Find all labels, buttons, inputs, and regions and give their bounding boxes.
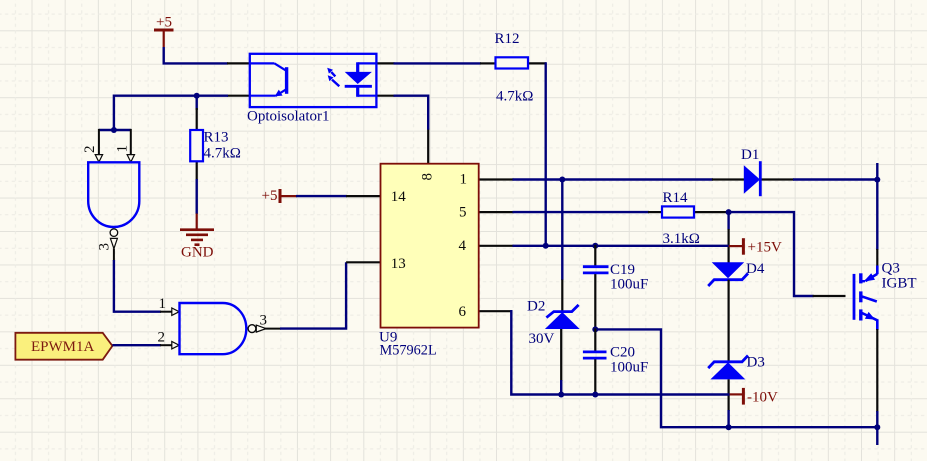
gate2 output arrow [256, 325, 266, 332]
wire branch to gate1 inputs [99, 129, 131, 131]
power -10V [729, 388, 778, 406]
svg-text:2: 2 [82, 146, 98, 154]
svg-text:4: 4 [459, 238, 467, 254]
U9 pin 5 stub [479, 211, 514, 213]
wire Q3 collector node down [876, 180, 878, 251]
svg-text:+5: +5 [262, 188, 278, 204]
svg-text:R12: R12 [495, 31, 520, 47]
svg-text:+5: +5 [156, 15, 172, 31]
wire D2 to -10V rail [560, 329, 562, 395]
gate1 input edge triangles [95, 155, 102, 162]
svg-text:D2: D2 [527, 299, 545, 315]
svg-text:5: 5 [459, 205, 467, 221]
wire +5 to U9 pin 14 [296, 195, 347, 197]
junction R14 / D4 branch [726, 209, 732, 215]
Q3 emitter lead and arrow [862, 313, 877, 320]
U9 pin 8 stub [427, 129, 429, 164]
wire D4 to D3 [727, 280, 729, 362]
Q3 collector lead and arrow [876, 266, 879, 275]
junction gate1 input branch [111, 127, 117, 133]
wire U9 pin 5 to R14 [513, 211, 650, 213]
optoisolator Optoisolator1 [227, 54, 395, 125]
svg-text:13: 13 [391, 256, 406, 272]
wire opto top-right to R12 [394, 62, 482, 64]
svg-text:D4: D4 [746, 261, 765, 277]
junction D1 / Q3 collector [874, 177, 880, 183]
wire EPWM1A to gate2 input 2 [112, 344, 161, 346]
Q3 emitter pin (black) [876, 329, 878, 412]
wire mid rail (C19 bottom to bottom rail) [594, 329, 878, 427]
svg-text:D3: D3 [747, 355, 765, 371]
svg-text:1: 1 [460, 171, 468, 187]
svg-text:D1: D1 [741, 147, 759, 163]
svg-text:6: 6 [459, 304, 467, 320]
wire stub below Q3 emitter junction [876, 427, 878, 445]
svg-text:30V: 30V [529, 331, 555, 347]
gate2 input pin lines [160, 311, 172, 313]
power +5 (at U9 pin 14) [262, 188, 298, 204]
wire gate1 output to gate2 input 1 [114, 260, 161, 312]
junction Q3 emitter / bottom rail [874, 424, 880, 430]
svg-text:Q3: Q3 [882, 261, 900, 277]
zener diode D3 [708, 355, 765, 380]
U9 pin 13 stub [346, 261, 380, 263]
resistor R14 [648, 190, 729, 247]
wire R13 to GND [195, 179, 197, 214]
wire R14 to Q3 gate [728, 212, 846, 296]
opto light arrows [327, 68, 339, 87]
Q3 emitter middle tap [862, 296, 877, 301]
ground GND [180, 214, 214, 261]
svg-text:1: 1 [115, 145, 131, 153]
U9 pin 4 stub [479, 245, 514, 247]
svg-text:3: 3 [97, 243, 113, 251]
svg-text:2: 2 [158, 330, 166, 346]
junction R12 / pin4 net [543, 243, 549, 249]
wire pin1 branch down to D2 [561, 180, 563, 312]
IC U9 M57962L [346, 129, 513, 359]
junction C19 / mid rail [592, 326, 598, 332]
svg-text:8: 8 [420, 173, 436, 181]
junction D3 / bottom rail [726, 424, 732, 430]
wire D3 to bottom rail [727, 379, 729, 427]
junction at R13 top / opto net [194, 93, 200, 99]
zener diode D4 [708, 261, 765, 286]
junction pin1 net / D2 branch [559, 177, 565, 183]
capacitor C20 [583, 328, 648, 394]
gate2 output bubble [248, 325, 256, 333]
U9 body [381, 164, 479, 328]
zener diode D2 [527, 299, 580, 348]
wire D1 to Q3 collector node [793, 178, 877, 180]
svg-text:-10V: -10V [747, 390, 778, 406]
svg-text:M57962L: M57962L [380, 343, 437, 359]
svg-text:100uF: 100uF [610, 277, 648, 293]
gate2 output pin line [264, 328, 281, 330]
wire U9 pin 4 net [513, 245, 729, 247]
wire U9 pin 6 to -10V rail [511, 311, 729, 394]
gate1 input pin lines [98, 129, 100, 155]
gate1 output pin line [113, 249, 115, 261]
Q3 collector pin (black) [876, 249, 878, 266]
svg-text:14: 14 [391, 189, 407, 205]
resistor R12 [480, 31, 546, 105]
junction C20 / -10V rail [592, 392, 598, 398]
transistor Q3 IGBT [854, 249, 917, 412]
power +5 (top left) [154, 15, 174, 48]
svg-text:1: 1 [159, 296, 167, 312]
junction pin4 net / C19 [592, 243, 598, 249]
gate1 output bubble [110, 229, 118, 237]
U9 pin 1 stub [479, 178, 514, 180]
Q3 channel dashes [859, 273, 862, 283]
svg-text:+15V: +15V [748, 240, 782, 256]
gate1 body [88, 162, 139, 227]
svg-text:4.7kΩ: 4.7kΩ [496, 89, 533, 105]
svg-text:Optoisolator1: Optoisolator1 [247, 109, 330, 125]
svg-text:R13: R13 [204, 130, 229, 146]
wire opto bottom-right to U9 pin 8 [394, 96, 429, 130]
wire R12 to pin4 net [545, 63, 546, 245]
svg-text:100uF: 100uF [610, 360, 648, 376]
NAND gate 2 (horizontal, inputs 1,2 output 3) [158, 296, 282, 354]
wire +5 to optoisolator top-left pin [164, 47, 228, 63]
resistor R13 [190, 108, 241, 180]
Q3 gate bar [853, 274, 856, 320]
capacitor C19 [583, 245, 648, 330]
svg-text:4.7kΩ: 4.7kΩ [204, 146, 241, 162]
NAND gate 1 (vertical, inputs 2,1 output 3) [82, 127, 139, 261]
gate1 output arrow [110, 238, 117, 248]
gate2 body [180, 303, 247, 354]
U9 pin 14 stub [346, 195, 380, 197]
svg-text:C20: C20 [610, 345, 635, 361]
wire stub above Q3 collector node [876, 163, 878, 180]
wire opto bottom-left to gate1 and R13 (net) [114, 96, 228, 131]
opto LED [345, 62, 376, 97]
svg-text:GND: GND [181, 245, 214, 261]
U9 pin 6 stub [479, 310, 512, 312]
gate2 input edge triangles [172, 308, 179, 315]
opto transistor [250, 63, 287, 96]
wire gate2 output to U9 pin 13 [280, 262, 346, 328]
svg-text:IGBT: IGBT [882, 276, 917, 292]
wire U9 pin 1 net [513, 178, 713, 180]
power +15V [729, 238, 782, 255]
wire R14 junction down to D4 [727, 211, 729, 263]
junction D2 / -10V rail [558, 392, 564, 398]
port EPWM1A [15, 333, 112, 360]
svg-text:EPWM1A: EPWM1A [31, 339, 95, 355]
diode D1 [712, 147, 794, 196]
wire Q3 emitter to bottom rail [876, 411, 878, 428]
svg-text:3: 3 [260, 313, 268, 329]
svg-text:R14: R14 [663, 190, 689, 206]
